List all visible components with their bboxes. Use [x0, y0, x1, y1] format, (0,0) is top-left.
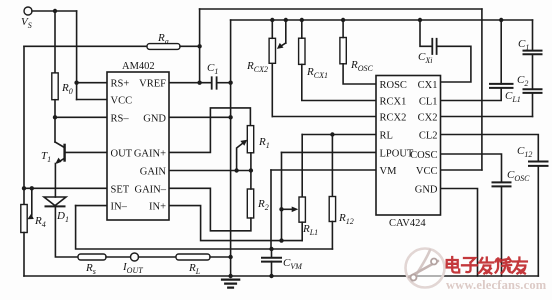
IC AM402 box: [107, 72, 169, 220]
wire VM down to IN- line: [270, 170, 272, 249]
svg-text:SET: SET: [111, 184, 130, 195]
wire RS- to IC: [55, 116, 107, 118]
node ROSC junction: [341, 18, 345, 22]
potentiometer R4: [21, 205, 27, 233]
wire ROSC top: [342, 20, 344, 38]
wire rail1 right corner down to VCC: [481, 9, 483, 170]
svg-text:LPOUT: LPOUT: [380, 148, 414, 159]
node Vs junction: [53, 9, 57, 13]
wire RL2 bottom: [331, 222, 333, 250]
wire R0 bottom to RS- node: [54, 100, 56, 142]
potentiometer RL1: [299, 197, 305, 222]
node R4 wiper junction: [30, 186, 34, 190]
watermark chinese text: [447, 257, 527, 274]
node RL1 wiper junction: [279, 207, 283, 211]
wire GAIN: [169, 170, 251, 172]
capacitor C1 (VREF): [212, 77, 217, 88]
svg-text:VREF: VREF: [139, 79, 166, 90]
wire RCX2 wiper: [285, 20, 287, 43]
wire Vs to supply corner: [32, 10, 77, 12]
capacitor CVM: [271, 249, 273, 257]
terminal Vs: [24, 7, 32, 15]
wire D1 down and to Rs: [55, 206, 78, 257]
wire VCC: [77, 99, 107, 101]
node RS- junction: [53, 115, 57, 119]
wire Iout to RL: [139, 256, 177, 258]
wire RL1 wiper arrow: [282, 208, 293, 210]
node ground rail junction: [228, 274, 232, 278]
svg-text:RCX2: RCX2: [380, 113, 407, 124]
wire RL right: [210, 256, 231, 258]
svg-text:COSC: COSC: [410, 150, 437, 161]
wire RCX2 top: [271, 20, 273, 38]
svg-text:GND: GND: [415, 185, 438, 196]
node LPOUT column junction: [279, 238, 283, 242]
svg-text:CX2: CX2: [418, 113, 438, 124]
wire Vs down to R0: [54, 11, 56, 73]
svg-text:GAIN+: GAIN+: [134, 148, 166, 159]
svg-text:OUT: OUT: [111, 148, 133, 159]
resistor RCX1: [299, 38, 305, 64]
wire VM: [271, 169, 376, 171]
wire RL2 top: [331, 135, 333, 197]
wire VREF: [169, 82, 211, 84]
svg-text:VM: VM: [380, 166, 398, 177]
resistor RL: [176, 254, 210, 260]
wire Ra right: [180, 45, 200, 47]
svg-text:GAIN–: GAIN–: [135, 184, 167, 195]
wire CL1 pin: [441, 88, 502, 101]
node CVM bottom junction: [269, 274, 273, 278]
diode D1: [44, 197, 66, 206]
wire LPOUT column down: [281, 152, 283, 240]
wire IN- down: [76, 206, 333, 249]
resistor R12: [329, 197, 335, 222]
node GND junction: [228, 115, 232, 119]
wire VCC pin: [441, 169, 482, 171]
watermark logo: [406, 249, 445, 288]
capacitor COSC: [493, 182, 511, 186]
resistor R0: [52, 73, 58, 100]
wire COSC cap down: [501, 186, 503, 276]
wire R1 wiper: [237, 143, 243, 171]
resistor Ra: [147, 44, 180, 50]
wire ROSC bottom to pin: [343, 64, 376, 84]
wire C12 down to rail: [537, 166, 539, 276]
svg-text:www.elecfans.com: www.elecfans.com: [446, 278, 547, 292]
wire R1 bottom: [250, 153, 252, 171]
wire R2 top: [250, 171, 252, 190]
top rail 1: [200, 8, 482, 10]
potentiometer R1: [247, 126, 253, 153]
wire IN+ loop: [169, 206, 302, 241]
node VREF-Ra junction: [197, 81, 201, 85]
wire RCX1 bottom to pin: [302, 64, 376, 100]
wire COSC pin: [441, 154, 502, 182]
top rail 2: [231, 19, 533, 21]
wire Rs to Iout: [106, 256, 131, 258]
potentiometer R2: [247, 189, 253, 218]
wire CX1 loop: [438, 46, 471, 82]
wire RCX2 pot bottom: [271, 63, 273, 116]
svg-text:CX1: CX1: [418, 80, 438, 91]
wire CXi left to rail2: [420, 20, 431, 46]
svg-text:VCC: VCC: [416, 166, 438, 177]
node R1/R2 junction: [249, 168, 253, 172]
node SET left junction: [22, 186, 26, 190]
wire RCX1 top: [301, 20, 303, 38]
wire emitter down to D1: [54, 164, 56, 198]
svg-text:RS+: RS+: [111, 79, 130, 90]
wire C1 to GND column: [218, 82, 231, 84]
wire RCX2 pin: [272, 116, 376, 118]
wire C1 C2 column: [532, 20, 534, 117]
svg-text:ROSC: ROSC: [380, 80, 407, 91]
wire RS+: [77, 82, 107, 84]
wire RL1 bottom: [301, 222, 303, 240]
svg-text:IN–: IN–: [111, 202, 128, 213]
wire CL2 pin: [441, 135, 539, 162]
wire rail1 left corner down: [199, 9, 201, 83]
wire IN-: [76, 205, 107, 207]
wire GAIN+ loop: [169, 108, 250, 152]
transistor T1: [55, 142, 65, 148]
wire R4 bottom to ground rail: [23, 233, 25, 277]
wire GAIN- loop to R2 bottom: [169, 188, 251, 231]
ground: [222, 280, 239, 288]
bottom rail: [24, 275, 538, 277]
node RCX1 junction: [300, 18, 304, 22]
svg-text:RS–: RS–: [111, 113, 130, 124]
wire GND column vertical: [230, 20, 232, 277]
node CXi junction: [418, 18, 422, 22]
wire Vs right branch down: [76, 11, 78, 100]
node RCX2 wiper junction: [284, 18, 288, 22]
wire RL pin: [302, 134, 376, 136]
wire net A horizontal: [24, 45, 147, 47]
node CVM junction: [269, 247, 273, 251]
svg-text:CL1: CL1: [419, 97, 438, 108]
wire GND pin CAV: [441, 189, 478, 277]
node RL junction: [228, 255, 232, 259]
wire GND pin: [169, 116, 231, 118]
wire CL1 cap top to rail2: [500, 20, 502, 84]
capacitor CL1: [490, 84, 513, 88]
capacitor CXi: [432, 39, 436, 54]
wire RL down to RL1: [301, 135, 303, 198]
wire CX2 pin: [441, 116, 533, 118]
wire SET: [24, 187, 107, 189]
svg-text:AM402: AM402: [122, 61, 155, 72]
potentiometer RCX2: [269, 38, 275, 63]
capacitor C1: [524, 51, 542, 55]
svg-text:GND: GND: [143, 113, 166, 124]
node RS+ junction: [74, 81, 78, 85]
resistor ROSC: [340, 38, 346, 64]
svg-text:RL: RL: [380, 131, 393, 142]
node RCX2 top junction: [270, 18, 274, 22]
resistor Rs: [78, 254, 106, 260]
IC CAV424 box: [376, 76, 441, 216]
node RL2 junction: [330, 132, 334, 136]
svg-text:IN+: IN+: [149, 202, 166, 213]
svg-text:GAIN: GAIN: [140, 167, 167, 178]
node Ra junction: [197, 44, 201, 48]
node R1 wiper junction: [234, 168, 238, 172]
svg-text:CAV424: CAV424: [389, 218, 426, 229]
svg-text:CL2: CL2: [419, 131, 438, 142]
capacitor C2: [524, 89, 542, 93]
capacitor C12: [529, 162, 548, 166]
wire LPOUT: [282, 151, 377, 153]
terminal Iout: [131, 253, 139, 261]
svg-text:VCC: VCC: [111, 96, 133, 107]
wire left rail down to R4: [23, 46, 25, 204]
node CL1 junction: [499, 18, 503, 22]
node C1 right junction: [228, 81, 232, 85]
svg-text:RCX1: RCX1: [380, 97, 407, 108]
